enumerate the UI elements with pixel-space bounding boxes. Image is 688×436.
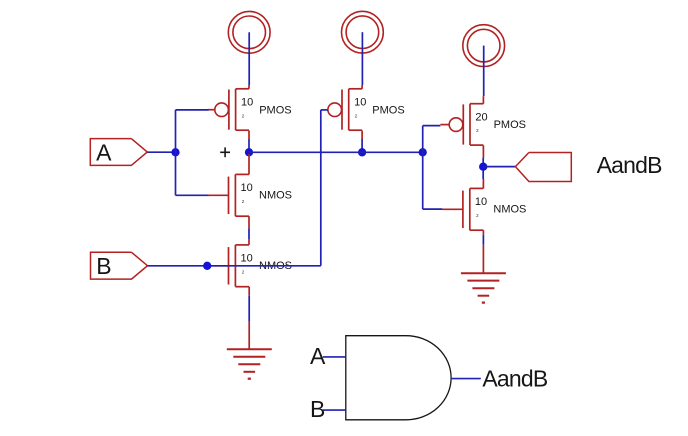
wire M6 source to ground — [482, 230, 484, 273]
svg-text:10: 10 — [241, 182, 253, 194]
wire M2 source to output node — [361, 131, 363, 153]
transistor M1 PMOS 10/2 — [208, 89, 292, 130]
svg-text:NMOS: NMOS — [259, 190, 292, 202]
power VDD symbol 2 — [342, 11, 384, 53]
wire output node down to M3 drain — [248, 154, 250, 174]
ground symbol 2 — [461, 273, 506, 304]
svg-text:PMOS: PMOS — [494, 119, 526, 131]
wire M4 source to ground — [248, 287, 250, 350]
node OUT1 junction at M2 — [358, 148, 366, 156]
node B junction at M4 gate pin — [203, 262, 211, 270]
svg-text:PMOS: PMOS — [372, 104, 404, 116]
svg-text:10: 10 — [241, 96, 253, 108]
node OUT1 junction at M1/M3 — [245, 148, 253, 156]
plus marker on output node — [220, 147, 230, 157]
wire node A to M1 gate — [176, 109, 209, 111]
wire M5 source to output node — [482, 145, 484, 179]
wire node A to M3 gate — [176, 194, 209, 196]
wire port A to node A — [147, 151, 175, 153]
wire port B to PMOS M2 gate branch — [148, 265, 321, 267]
label B at AND gate — [310, 396, 325, 422]
transistor M5 PMOS 20/2 — [440, 104, 526, 145]
wire VDD1 to PMOS M1 drain — [248, 32, 250, 89]
wire B input stub of AND gate — [323, 409, 346, 411]
wire M1 source to output node — [248, 131, 250, 153]
svg-text:AandB: AandB — [597, 152, 663, 178]
svg-text:PMOS: PMOS — [259, 104, 291, 116]
svg-text:B: B — [96, 253, 111, 279]
gate AND2 body — [346, 336, 451, 420]
wire M2 gate down to node B — [321, 110, 328, 266]
transistor M6 NMOS 10/2 — [442, 188, 526, 230]
power VDD symbol 1 — [228, 11, 270, 53]
wire VDD2 to PMOS M2 drain — [361, 32, 363, 89]
wire VDD3 to PMOS M5 drain — [482, 46, 484, 104]
transistor M4 NMOS 10/2 — [208, 245, 292, 287]
svg-text:A: A — [96, 139, 112, 165]
wire M6 drain to output node — [482, 179, 484, 188]
svg-text:10: 10 — [475, 196, 487, 208]
port A — [90, 139, 147, 166]
svg-text:NMOS: NMOS — [493, 204, 526, 216]
svg-text:20: 20 — [475, 111, 487, 123]
label AandB at output port — [597, 152, 663, 178]
svg-text:A: A — [310, 343, 326, 369]
wire NAND output to inverter input — [249, 151, 423, 153]
wire node A vertical to gates of M1 and M3 — [175, 110, 177, 195]
svg-text:10: 10 — [241, 253, 253, 265]
svg-text:AandB: AandB — [482, 365, 548, 391]
node A junction — [171, 148, 179, 156]
port AandB output — [515, 153, 571, 182]
label AandB at AND gate output — [482, 365, 548, 391]
svg-text:10: 10 — [354, 96, 366, 108]
wire A input stub of AND gate — [323, 356, 346, 358]
wire AND gate output stub — [451, 378, 481, 380]
ground symbol 1 — [227, 349, 272, 380]
power VDD symbol 3 — [463, 25, 505, 67]
wire inverter input to M5 and M6 gates — [423, 126, 443, 210]
wire output node to port AandB — [483, 166, 515, 168]
node INV-IN junction — [419, 148, 427, 156]
node OUT junction — [479, 163, 487, 171]
transistor M2 PMOS 10/2 — [328, 89, 405, 130]
svg-text:B: B — [310, 396, 325, 422]
transistor M3 NMOS 10/2 — [208, 174, 292, 216]
port B — [91, 252, 148, 279]
label A at AND gate — [310, 343, 326, 369]
wire M3 source to M4 drain — [248, 216, 250, 245]
